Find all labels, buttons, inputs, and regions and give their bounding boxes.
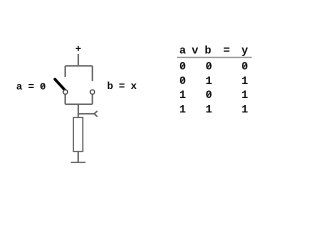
svg-text:v: v [192,46,199,58]
wire: tap down to resistor [77,104,79,117]
svg-text:y: y [241,46,248,58]
svg-text:0: 0 [241,62,248,74]
svg-text:0: 0 [205,62,212,74]
svg-text:0: 0 [179,62,186,74]
truth table rows [179,62,248,117]
wire: bottom rail [65,103,92,105]
svg-text:1: 1 [179,104,186,116]
wire: output y horizontal [78,113,94,115]
switch a lever (open) [55,79,65,90]
svg-text:=: = [223,46,230,58]
svg-text:1: 1 [241,76,248,88]
svg-text:=: = [28,82,34,94]
truth table header rule [177,56,252,58]
svg-text:a: a [179,46,186,58]
wire: left branch upper [64,66,66,77]
svg-text:=: = [119,81,125,93]
wire: below contact b [91,94,93,104]
node y: open connector fork [94,111,97,117]
wire: resistor to ground [77,152,79,163]
svg-text:x: x [131,81,137,93]
wire: right branch upper [91,66,93,81]
svg-text:b: b [107,81,113,93]
svg-text:0: 0 [205,90,212,102]
svg-text:b: b [205,46,212,58]
svg-text:0: 0 [40,82,46,94]
svg-text:0: 0 [179,76,186,88]
svg-text:1: 1 [241,104,248,116]
svg-text:1: 1 [205,76,212,88]
slashes for zeros in table [181,63,247,97]
svg-text:+: + [75,45,81,56]
switch b contact circle [90,90,94,94]
svg-text:1: 1 [241,90,248,102]
wire: stub below + supply [77,54,79,66]
svg-text:1: 1 [179,90,186,102]
switch a contact circle [63,90,67,94]
resistor R [73,118,82,152]
wire: below contact a [64,94,66,104]
wire: top rail [65,65,92,67]
svg-text:a: a [16,82,22,94]
svg-text:1: 1 [205,104,212,116]
truth table header: a v b = y [179,46,248,58]
ground [71,161,86,163]
